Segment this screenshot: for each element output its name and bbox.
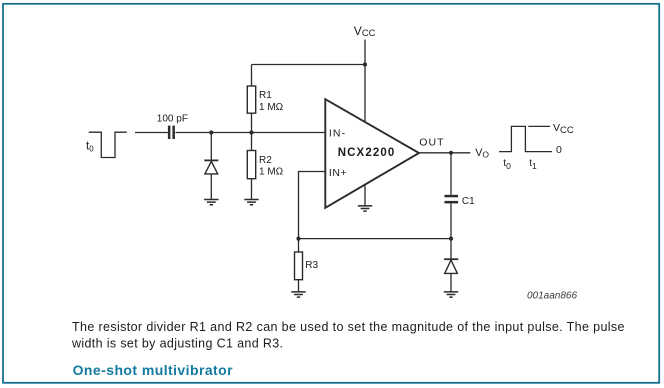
svg-text:t0: t0: [503, 158, 511, 171]
svg-text:OUT: OUT: [419, 137, 444, 149]
svg-text:1 MΩ: 1 MΩ: [259, 102, 284, 113]
svg-text:IN-: IN-: [329, 128, 346, 140]
svg-text:IN+: IN+: [329, 167, 347, 179]
svg-text:100 pF: 100 pF: [157, 114, 188, 125]
svg-text:t0: t0: [86, 141, 94, 154]
svg-text:One-shot multivibrator: One-shot multivibrator: [73, 362, 234, 378]
svg-text:The resistor divider R1 and R2: The resistor divider R1 and R2 can be us…: [72, 320, 625, 334]
svg-text:width is set by adjusting C1 a: width is set by adjusting C1 and R3.: [71, 336, 283, 350]
svg-text:1 MΩ: 1 MΩ: [259, 167, 284, 178]
svg-text:R3: R3: [305, 260, 318, 271]
svg-text:VCC: VCC: [553, 122, 574, 136]
svg-text:001aan866: 001aan866: [527, 291, 577, 302]
svg-text:0: 0: [556, 144, 562, 156]
svg-text:NCX2200: NCX2200: [338, 147, 395, 159]
svg-text:R1: R1: [259, 90, 272, 101]
svg-text:VCC: VCC: [354, 24, 376, 38]
svg-text:R2: R2: [259, 155, 272, 166]
svg-text:C1: C1: [462, 196, 475, 207]
svg-text:VO: VO: [475, 147, 489, 160]
svg-text:t1: t1: [529, 158, 537, 171]
